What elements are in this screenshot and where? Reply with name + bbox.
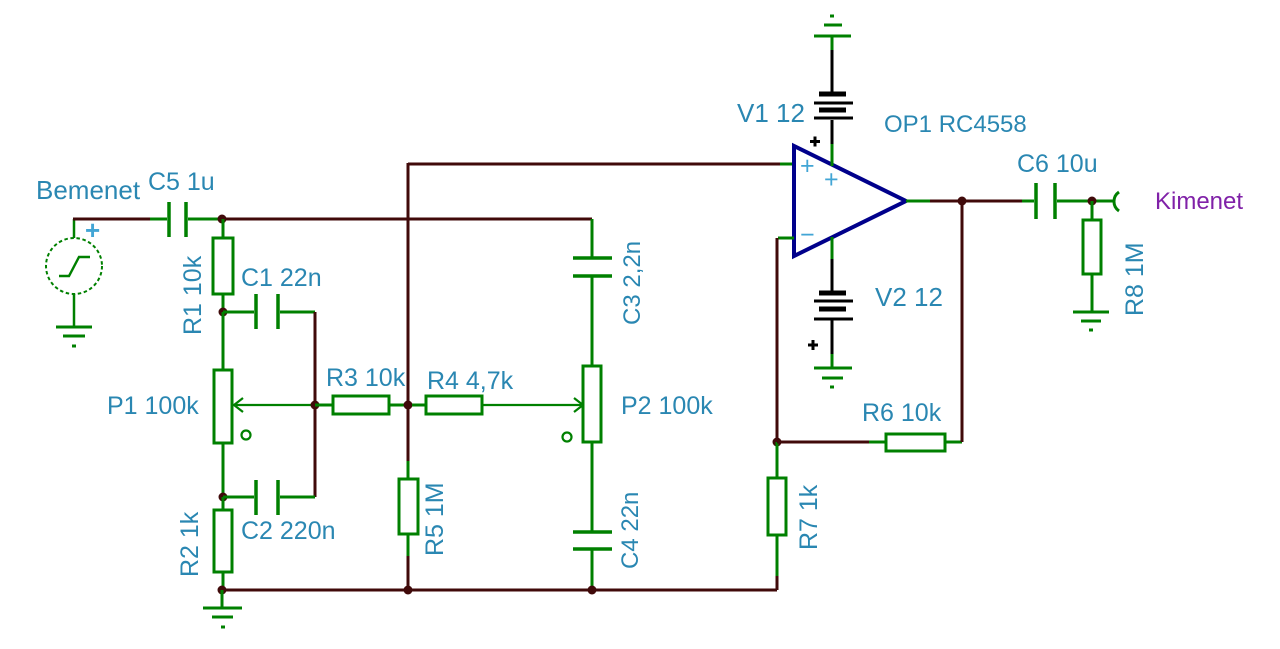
svg-text:P2 100k: P2 100k: [621, 392, 713, 420]
svg-text:R5 1M: R5 1M: [421, 482, 449, 556]
capacitor C4: [573, 532, 612, 590]
wire feedback: [778, 237, 794, 240]
potentiometer P1: [214, 312, 232, 497]
source VG1: [46, 219, 102, 327]
capacitor C5: [169, 202, 222, 237]
capacitor C3: [573, 258, 612, 276]
svg-text:R7 1k: R7 1k: [795, 484, 823, 550]
wire to C3: [591, 219, 594, 258]
svg-text:R4 4,7k: R4 4,7k: [427, 367, 514, 395]
wire top to opamp: [408, 163, 780, 166]
battery V1: [814, 50, 853, 144]
svg-text:P1 100k: P1 100k: [107, 392, 199, 420]
svg-text:C3 2,2n: C3 2,2n: [619, 241, 646, 325]
svg-text:C5 1u: C5 1u: [148, 168, 215, 196]
resistor R8: [1083, 201, 1101, 312]
V1 lead to opamp: [831, 144, 834, 166]
V1 plus mark: [810, 137, 820, 147]
svg-text:+: +: [800, 152, 815, 180]
node dot J: [1088, 197, 1097, 206]
resistor R5: [399, 461, 418, 556]
svg-text:V2 12: V2 12: [875, 282, 943, 312]
resistor R7: [768, 442, 786, 576]
node dot G: [588, 586, 597, 595]
capacitor C6: [1022, 183, 1113, 219]
node dot E: [404, 401, 413, 410]
wire R6 to output: [961, 202, 964, 442]
capacitor C2: [223, 480, 315, 515]
wire C1 to C2 vertical: [314, 312, 317, 497]
resistor R4: [412, 396, 482, 414]
node dot H: [773, 438, 782, 447]
node dot C: [219, 493, 228, 502]
svg-text:R2 1k: R2 1k: [176, 511, 204, 577]
battery V2: [831, 237, 834, 259]
P1 wiper arrow: [234, 398, 315, 412]
capacitor C1: [223, 294, 315, 329]
svg-text:R6 10k: R6 10k: [862, 399, 942, 427]
node dot A: [218, 215, 227, 224]
resistor R1: [213, 219, 233, 312]
ground (V2): [814, 354, 852, 387]
node dot I: [958, 197, 967, 206]
svg-text:Bemenet: Bemenet: [36, 175, 141, 205]
P1 ccw marker o: [242, 431, 251, 440]
wire opamp output: [906, 200, 930, 203]
op-amp OP1: [794, 146, 906, 256]
resistor R2: [214, 497, 232, 590]
potentiometer P2: [583, 276, 601, 532]
svg-text:C1 22n: C1 22n: [241, 264, 322, 292]
node dot F: [404, 586, 413, 595]
ground (source): [56, 327, 92, 346]
resistor R6: [777, 441, 869, 444]
svg-text:C2 220n: C2 220n: [241, 517, 336, 545]
svg-text:−: −: [800, 221, 815, 249]
svg-text:R3 10k: R3 10k: [326, 364, 406, 392]
svg-text:R1 10k: R1 10k: [179, 255, 207, 335]
wire mid vertical: [407, 163, 410, 590]
svg-text:Kimenet: Kimenet: [1155, 188, 1243, 215]
svg-text:C4 22n: C4 22n: [617, 492, 644, 569]
svg-text:V1 12: V1 12: [737, 98, 805, 128]
svg-text:+: +: [824, 166, 839, 194]
node dot wiper: [311, 401, 320, 410]
svg-text:R8 1M: R8 1M: [1121, 242, 1149, 316]
wire top node to C3: [222, 218, 592, 221]
ground (R8): [1073, 312, 1109, 330]
node dot D: [218, 586, 227, 595]
bottom wire: [222, 589, 777, 592]
output port: [1114, 192, 1119, 211]
R4 to P2 wiper arrow: [482, 398, 583, 412]
V2 plus mark: [808, 340, 818, 350]
ground (V1 top, inverted): [814, 16, 851, 50]
svg-text:C6 10u: C6 10u: [1017, 150, 1098, 178]
node dot B: [219, 308, 228, 317]
wire input to C5: [73, 218, 150, 221]
ground (main): [203, 590, 242, 627]
svg-text:OP1 RC4558: OP1 RC4558: [884, 111, 1027, 138]
P2 ccw marker o: [563, 433, 572, 442]
resistor R3: [315, 396, 404, 414]
